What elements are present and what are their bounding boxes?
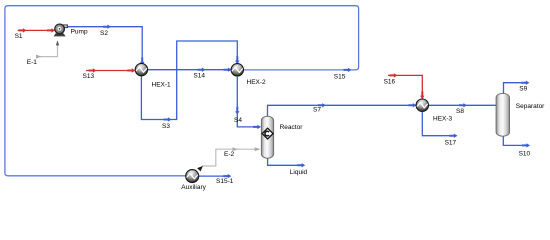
svg-text:S3: S3 [162,123,170,130]
wire: stream S15-1 auxiliary outlet [199,175,231,177]
svg-text:S9: S9 [519,86,527,93]
arrowhead S13 near start [89,68,97,72]
arrowhead S4 mid down [235,107,239,115]
arrowhead S3 into HEX-2 [235,56,239,64]
svg-text:S8: S8 [456,108,464,115]
arrowhead S7 at HEX-3 [408,103,416,107]
separator vessel [496,93,509,136]
svg-text:S4: S4 [234,117,242,124]
wire: stream S3 HEX-1 bottom loop to HEX-2 top [141,41,237,120]
arrowhead E-1 near start [36,55,42,59]
reactor catalyst diamond C [262,128,273,139]
arrowhead S8 mid [459,103,467,107]
heat exchanger HEX-1 [135,63,147,75]
arrowhead E-2 connector at auxiliary (black, NE) [197,166,203,172]
arrowhead S3 bottom segment [164,117,172,121]
svg-text:S10: S10 [519,150,531,157]
arrowhead S9 end [521,81,529,85]
svg-text:HEX-3: HEX-3 [433,115,453,122]
arrowhead S2 into HEX-1 [140,58,144,66]
arrowhead on S15 before corner [344,68,352,72]
arrowhead S7 mid [318,103,326,107]
arrowhead S16 near start [390,73,398,77]
heat exchanger HEX-3 [416,99,428,111]
heat exchanger Auxiliary [186,170,199,183]
arrowhead S17 end [450,134,458,138]
arrowhead Liquid end [297,163,305,167]
reactor vessel [261,116,273,158]
wire: stream Liquid from reactor bottom [268,158,305,165]
svg-text:HEX-2: HEX-2 [247,79,267,86]
arrowhead S15-1 end [223,174,231,178]
arrowhead E-2 mid [233,147,239,151]
svg-text:E-1: E-1 [27,59,38,66]
wire: stream S2 pump to HEX-1 [67,27,143,65]
svg-text:S15-1: S15-1 [216,178,234,185]
svg-text:S16: S16 [384,78,396,85]
svg-text:S2: S2 [100,30,108,37]
svg-text:Pump: Pump [71,29,88,36]
wire: stream S10 separator bottom outlet [503,136,529,145]
wire: stream S14 HEX-1 to HEX-2 [148,69,231,71]
arrowhead S16 into HEX-3 [420,91,424,99]
svg-text:S7: S7 [313,106,321,113]
arrowhead S10 end [522,143,530,147]
svg-text:HEX-1: HEX-1 [152,81,172,88]
arrowhead S2 mid [103,25,111,29]
arrowhead S14 mid [198,68,206,72]
wire: stream S16 red inlet to HEX-3 [388,75,422,98]
wire: recycle loop S15 big rounded frame path [5,6,359,176]
arrowhead E-1 into pump (dark) [56,41,59,46]
svg-text:Separator: Separator [516,103,545,110]
svg-text:S14: S14 [193,72,205,79]
wire: stream S9 separator top outlet [504,83,529,94]
arrowhead S4 into reactor [253,125,261,129]
svg-text:E-2: E-2 [224,151,235,158]
svg-text:S15: S15 [334,74,346,81]
svg-text:S13: S13 [83,73,95,80]
svg-text:S17: S17 [445,140,457,147]
arrowhead S1 near start [19,28,27,32]
wire: stream S13 red inlet to HEX-1 [86,70,135,72]
svg-text:Liquid: Liquid [290,169,308,176]
svg-text:Auxiliary: Auxiliary [181,184,206,191]
wire: stream S17 HEX-3 bottom outlet [422,111,456,135]
arrowhead S1 at pump [47,28,55,32]
wire: stream S1 red inlet to pump [18,29,55,31]
arrowhead S13 at HEX-1 [127,68,135,72]
pump P-1 icon [54,24,68,36]
svg-text:S1: S1 [15,33,23,40]
arrowhead E-2 at reactor [255,147,261,151]
wire: stream S7 reactor to HEX-3 [268,105,416,116]
arrowhead S14 at HEX-2 [224,68,232,72]
wire: energy stream E-2 auxiliary to reactor [202,149,260,166]
wire: stream S8 HEX-3 to separator [429,104,497,106]
svg-text:Reactor: Reactor [280,124,304,131]
wire: energy stream E-1 to pump [37,41,58,57]
wire: stream S4 HEX-2 to reactor [237,76,260,127]
heat exchanger HEX-2 [231,64,243,76]
